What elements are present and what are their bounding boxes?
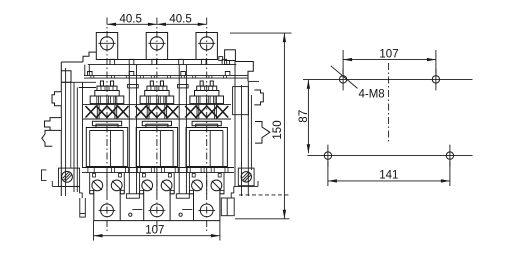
svg-text:150: 150 — [272, 120, 284, 139]
coil box mid line 3 — [209, 131, 211, 167]
contact spring right 1 — [111, 81, 114, 86]
left mini bracket — [42, 170, 47, 181]
left clip mid — [45, 118, 62, 131]
mounting hole bottom-left — [324, 152, 331, 159]
upper square 4 — [225, 72, 230, 76]
rail 1 left line — [128, 65, 130, 194]
rail 1 foot — [126, 194, 139, 198]
right rail line 3 — [247, 81, 249, 196]
right hook — [255, 122, 270, 144]
clamp side left 1 — [89, 173, 91, 194]
svg-text:107: 107 — [145, 225, 164, 237]
pocket foot right 3 — [220, 191, 224, 194]
left clip upper — [52, 92, 61, 106]
contact base 1 — [90, 96, 124, 104]
dim 107 arrow left — [94, 234, 103, 237]
top terminal screw 2 — [150, 37, 163, 50]
svg-text:40.5: 40.5 — [169, 13, 191, 25]
clamp divider 2 — [156, 173, 158, 194]
mounting hole top-left — [339, 76, 346, 83]
coil box inner top 1 — [90, 130, 124, 132]
pocket notch right 1 — [119, 174, 122, 178]
dim 107 ext left — [93, 221, 95, 241]
dim 107 top ext right — [435, 50, 437, 74]
clamp screw 3.1 — [192, 180, 203, 191]
coil box outer 2 — [136, 128, 177, 167]
mounting hole top-right tick — [435, 68, 437, 90]
top band notch 3 — [152, 59, 157, 64]
clamp screw 1.2 — [111, 180, 122, 191]
rail 1 right line — [136, 65, 138, 194]
upper horizontal line C — [84, 77, 248, 79]
top-left notch — [83, 52, 96, 62]
bottom screw slot 2 — [149, 209, 166, 211]
svg-text:40.5: 40.5 — [120, 13, 142, 25]
contact tier1 ticks 2 — [150, 86, 152, 90]
right housing base — [234, 185, 258, 187]
clamp screw 1.1 — [92, 180, 103, 191]
dim 107 top arrow right — [427, 58, 436, 61]
coil box inner top 2 — [140, 130, 174, 132]
coil box mid line 2 — [159, 131, 161, 167]
top-right step — [225, 61, 230, 65]
lower tick band — [87, 168, 89, 173]
clamp side left 2 — [139, 173, 141, 194]
dim 40.5 arrow 3 — [157, 23, 166, 26]
pocket foot right 2 — [170, 191, 174, 194]
clamp divider 3 — [206, 173, 208, 194]
top terminal tab 3 — [196, 33, 217, 60]
svg-text:107: 107 — [379, 48, 398, 60]
left rail line 5 — [82, 82, 84, 168]
bottom edge line — [94, 220, 221, 222]
top-right notch — [219, 57, 223, 61]
top band notch 2 — [129, 59, 134, 64]
pocket notch right 2 — [168, 174, 171, 178]
dim 141 arrow left — [328, 179, 337, 182]
contact tier1 2 — [147, 86, 167, 90]
rail 2 cap — [178, 85, 189, 88]
pocket foot right 1 — [120, 191, 124, 194]
arc chute zigzag A pole 3 — [185, 106, 228, 118]
clamp screw slash 1.1 — [93, 181, 102, 190]
coil box inner top 3 — [189, 130, 223, 132]
pocket foot left 3 — [189, 191, 193, 194]
left rail line 1 — [60, 62, 62, 196]
upper square 3 — [181, 72, 186, 76]
contact tier1 ticks 3 — [200, 86, 202, 90]
right foot slot — [226, 198, 228, 216]
pocket notch left 2 — [142, 174, 145, 178]
top-left shoulder line — [61, 61, 83, 63]
mounting hole bottom-left tick — [327, 145, 329, 167]
mounting top line — [303, 78, 473, 80]
top screw slot 3 — [198, 42, 215, 44]
left screw housing — [59, 168, 80, 186]
mounting hole top-right — [432, 76, 439, 83]
contact spring right 3 — [210, 81, 213, 86]
left sub line — [79, 87, 96, 89]
clamp screw slash 2.2 — [162, 181, 171, 190]
upper square 1 — [88, 72, 93, 76]
left foot slot — [80, 214, 86, 218]
dim 150 ext bottom — [235, 218, 290, 220]
body top edge seg1 — [118, 59, 147, 61]
dim 141 ext right — [449, 161, 451, 186]
small dot right — [179, 213, 182, 216]
box cap 3 — [196, 124, 218, 127]
pocket notch left 3 — [192, 174, 195, 178]
dim 40.5 line — [107, 23, 207, 25]
right rail line 2 — [241, 85, 243, 196]
clamp side left 3 — [188, 173, 190, 194]
dim 87 arrow top — [307, 80, 310, 89]
clamp screw 2.1 — [142, 180, 153, 191]
contact base 3 — [190, 96, 224, 104]
pole 1 center line — [106, 18, 108, 232]
right foot outline — [231, 186, 234, 198]
arc chute stems pole 1 — [96, 105, 98, 119]
4-M8 leader line — [331, 66, 358, 89]
left clip lower hook — [42, 130, 53, 146]
coil box inner left 2 — [139, 131, 141, 167]
arc chute stems pole 2 — [146, 105, 148, 119]
contact spring left 2 — [150, 81, 153, 86]
right rail line 1 — [234, 61, 236, 187]
lower base plate 2 — [142, 121, 171, 125]
dim 150 line — [283, 33, 285, 219]
lower band line A — [82, 167, 234, 169]
arc chute zigzag B pole 1 — [86, 106, 129, 118]
mounting hole top-left tick — [342, 68, 344, 90]
contact spring left 1 — [100, 81, 103, 86]
dim 150 arrow top — [283, 33, 286, 42]
small dot left — [129, 213, 132, 216]
clamp side right 1 — [123, 173, 125, 194]
top terminal screw 1 — [100, 37, 113, 50]
dim 141 line — [328, 180, 450, 182]
clamp step left 1 — [90, 193, 94, 195]
pocket notch right 3 — [218, 174, 221, 178]
left rail line 4 — [76, 88, 78, 193]
right top line — [248, 80, 259, 82]
coil box outer 1 — [86, 128, 127, 167]
right block — [233, 87, 249, 115]
arc chute band top line — [83, 104, 231, 106]
left rail line 6 — [70, 82, 72, 168]
dim 141 ext left — [327, 161, 329, 186]
clamp screw slash 3.1 — [192, 181, 201, 190]
rail 1 cap — [128, 85, 139, 88]
left shoulder bump — [61, 71, 71, 83]
coil box inner right 3 — [222, 131, 224, 167]
right screw housing — [238, 168, 254, 186]
left upper verticals — [84, 65, 86, 76]
upper horizontal line A — [88, 64, 237, 66]
coil box inner right 2 — [172, 131, 174, 167]
clamp screw slash 2.1 — [143, 181, 152, 190]
contact spring left 3 — [200, 81, 203, 86]
rail 2 foot — [176, 194, 189, 198]
top terminal tab 2 — [146, 33, 167, 60]
top terminal screw 3 — [200, 37, 213, 50]
coil box inner right 1 — [122, 131, 124, 167]
clamp step right 1 — [120, 193, 124, 195]
dim 150 arrow bottom — [283, 210, 286, 219]
contact spring right 2 — [160, 81, 163, 86]
contact tier2 1 — [95, 91, 119, 97]
lower base plate 3 — [192, 121, 221, 125]
pattern center line — [388, 63, 390, 144]
contact tier1 3 — [197, 86, 217, 90]
mounting hole bottom-right — [446, 152, 453, 159]
coil box inner left 1 — [89, 131, 91, 167]
contact base ticks 1 — [96, 96, 98, 104]
dim 107 arrow right — [211, 234, 220, 237]
dim 107 ext right — [219, 221, 221, 241]
dim 107 line — [94, 235, 220, 237]
bottom terminal screw 1 — [101, 204, 114, 217]
coil box outer 3 — [186, 128, 227, 167]
right rail line 4 — [250, 95, 252, 170]
top band notch 5 — [201, 59, 206, 64]
right side screw hatch — [243, 174, 249, 180]
left foot outline — [80, 186, 83, 198]
bottom terminal screw 3 — [200, 204, 213, 217]
dim 40.5 arrow 2 — [148, 23, 157, 26]
clamp divider 1 — [106, 173, 108, 194]
dim 87 arrow bottom — [307, 144, 310, 153]
left side screw hatch — [64, 174, 71, 181]
left rail line 2 — [65, 68, 67, 196]
left rail line 3 — [73, 82, 75, 192]
top terminal tab 1 — [96, 33, 117, 60]
bottom tab sides 3 — [193, 190, 195, 221]
mounting hole bottom-right tick — [449, 145, 451, 167]
dim 107 top ext left — [342, 50, 344, 74]
arc chute zigzag A pole 2 — [135, 106, 178, 118]
bottom terminal screw 2 — [151, 204, 164, 217]
pocket foot left 1 — [90, 191, 94, 194]
dim 107 top arrow left — [343, 58, 352, 61]
tick band — [90, 76, 92, 79]
svg-text:87: 87 — [298, 110, 310, 123]
arc chute zigzag A pole 1 — [86, 106, 129, 118]
dim 87 line — [307, 80, 309, 153]
contact tier2 2 — [145, 91, 169, 97]
contact base ticks 2 — [146, 96, 148, 104]
right body top edge — [235, 62, 253, 82]
pole 3 center line — [206, 18, 208, 232]
arc chute zigzag B pole 2 — [135, 106, 178, 118]
contact tier1 1 — [97, 86, 117, 90]
rail 2 right line — [185, 65, 187, 194]
contact tier2 3 — [195, 91, 219, 97]
clamp screw slash 3.2 — [212, 181, 221, 190]
arc chute zigzag B pole 3 — [185, 106, 228, 118]
pocket notch left 1 — [93, 174, 96, 178]
right clip — [254, 90, 263, 105]
contact base 2 — [140, 96, 174, 104]
bottom screw slot 1 — [99, 209, 116, 211]
clamp step left 2 — [140, 193, 144, 195]
rail 2 left line — [178, 65, 180, 194]
top band notch 4 — [179, 59, 184, 64]
contact tier1 ticks 1 — [100, 86, 102, 90]
hidden dashed line right — [239, 194, 289, 196]
clamp side right 2 — [173, 173, 175, 194]
top screw slot 2 — [148, 42, 165, 44]
clamp step right 2 — [170, 193, 174, 195]
bottom tab sides 1 — [93, 190, 95, 221]
clamp screw slash 1.2 — [112, 181, 121, 190]
arc chute band bottom line — [83, 118, 231, 120]
clamp screw 3.2 — [211, 180, 222, 191]
box cap 2 — [146, 124, 168, 127]
right side screw — [241, 172, 251, 182]
left shoulder base — [61, 81, 96, 83]
dim 141 arrow right — [441, 179, 450, 182]
svg-text:4-M8: 4-M8 — [359, 89, 385, 101]
left side screw — [62, 171, 73, 182]
small dash left — [132, 209, 142, 211]
top band notch 1 — [110, 59, 115, 64]
upper horizontal line B — [84, 75, 248, 77]
clamp screw 2.2 — [161, 180, 172, 191]
dim 40.5 arrow 1 — [107, 23, 116, 26]
coil box mid line 1 — [110, 131, 112, 167]
dim 107 top line — [343, 59, 436, 61]
coil box inner left 3 — [188, 131, 190, 167]
lower base plate 1 — [92, 121, 121, 125]
pole 2 center line — [156, 18, 158, 232]
dim 150 ext top — [230, 32, 292, 34]
bottom tab sides 2 — [143, 190, 145, 221]
box cap 1 — [96, 124, 118, 127]
body top edge seg2 — [168, 59, 196, 61]
clamp step left 3 — [189, 193, 193, 195]
clamp step right 3 — [220, 193, 224, 195]
pocket foot left 2 — [140, 191, 144, 194]
mounting bottom line — [307, 155, 472, 157]
dim 40.5 arrow 4 — [198, 23, 207, 26]
top band notch 6 — [222, 59, 227, 64]
svg-text:141: 141 — [379, 170, 398, 182]
lower band line B — [82, 172, 234, 174]
clamp side right 3 — [223, 173, 225, 194]
top screw slot 1 — [98, 42, 115, 44]
contact base ticks 3 — [196, 96, 198, 104]
upper square 2 — [129, 72, 134, 76]
small dash right — [182, 209, 192, 211]
top-right block — [225, 50, 236, 61]
arc chute stems pole 3 — [196, 105, 198, 119]
left housing base — [52, 185, 79, 187]
bottom screw slot 3 — [198, 209, 215, 211]
